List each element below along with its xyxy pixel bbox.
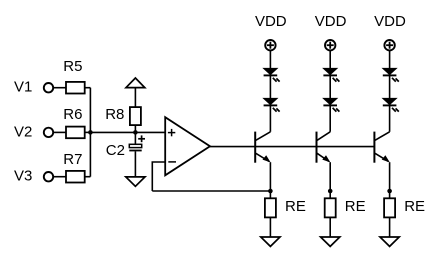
wire V2 to R6 [54, 131, 66, 133]
ground column 3 [380, 237, 399, 246]
LED D2b emission arrows [333, 108, 340, 112]
svg-text:RE: RE [285, 198, 306, 215]
supply VDD terminal column 1 [265, 40, 275, 50]
wire R6 to bus [85, 131, 91, 133]
wire feedback to first emitter [152, 190, 270, 192]
supply arrow above R8 [126, 78, 145, 88]
LED D2a emission arrows [333, 78, 340, 82]
LED D1a emission arrows [273, 78, 280, 82]
transistor Q3 [374, 132, 389, 163]
wire LED D2b to Q2 collector [329, 105, 331, 131]
wire V3 to R7 [54, 176, 66, 178]
wire LED D1a to D1b [269, 75, 271, 98]
op-amp U1 [165, 117, 210, 175]
resistor R7 [66, 171, 85, 183]
resistor R5 [66, 82, 85, 94]
capacitor C2 [129, 144, 141, 151]
wire LED D3a to D3b [389, 75, 391, 98]
resistor RE column 3 [384, 198, 395, 217]
terminal V3 [44, 172, 53, 181]
wire R5 to bus [85, 87, 91, 89]
LED D1a [264, 68, 278, 75]
node Q3 emitter junction [387, 189, 392, 194]
terminal V2 [44, 128, 53, 137]
node Q1 emitter junction [268, 189, 273, 194]
svg-text:VDD: VDD [315, 13, 347, 30]
svg-text:RE: RE [345, 198, 366, 215]
transistor Q1 [255, 132, 270, 163]
svg-text:R7: R7 [63, 151, 82, 168]
wire RE to ground column 1 [269, 217, 271, 237]
ground column 2 [321, 237, 340, 246]
wire Q3 emitter to node [389, 162, 391, 191]
supply VDD terminal column 2 [325, 40, 335, 50]
op-amp U1 minus input marking [168, 161, 176, 163]
ground column 1 [261, 237, 280, 246]
svg-text:VDD: VDD [374, 13, 406, 30]
wire V1 to R5 [54, 87, 66, 89]
svg-text:C2: C2 [106, 142, 125, 159]
svg-text:V3: V3 [14, 168, 32, 185]
transistor Q2 [317, 132, 331, 163]
svg-text:VDD: VDD [255, 13, 287, 30]
wire RE to ground column 3 [389, 217, 391, 237]
wire VDD to LED D3a [389, 50, 391, 68]
svg-text:V1: V1 [14, 79, 32, 96]
wire op-amp output rail [210, 146, 374, 148]
wire node to C2 [134, 132, 136, 144]
wire arrow to R8 [134, 88, 136, 108]
wire C2 to ground [134, 151, 136, 177]
wire input bus vertical [89, 88, 91, 177]
svg-text:R8: R8 [105, 106, 124, 123]
LED D2a [323, 68, 337, 75]
capacitor C2 plus sign [138, 135, 145, 142]
resistor R6 [66, 127, 85, 139]
wire VDD to LED D2a [329, 50, 331, 68]
svg-text:R6: R6 [63, 106, 82, 123]
resistor RE column 1 [265, 198, 276, 217]
node R8/C2 junction [133, 130, 138, 135]
wire op-amp - input stub [152, 162, 165, 191]
svg-text:R5: R5 [63, 58, 82, 75]
resistor R8 [130, 107, 141, 125]
LED D3a emission arrows [392, 78, 399, 82]
resistor RE column 2 [325, 198, 336, 217]
svg-text:V2: V2 [14, 123, 32, 140]
wire R7 to bus [85, 176, 91, 178]
LED D3a [383, 68, 397, 75]
wire bus to op-amp + input [90, 131, 165, 133]
supply VDD terminal column 3 [384, 40, 394, 50]
wire Q2 emitter to node [329, 162, 331, 191]
node input bus junction [88, 130, 93, 135]
wire node to RE column 1 [269, 191, 271, 198]
wire LED D1b to Q1 collector [269, 105, 271, 131]
LED D3b emission arrows [392, 108, 399, 112]
wire LED D2a to D2b [329, 75, 331, 98]
wire node to RE column 3 [389, 191, 391, 198]
LED D3b [383, 98, 397, 105]
terminal V1 [44, 83, 53, 92]
wire LED D3b to Q3 collector [389, 105, 391, 131]
wire VDD to LED D1a [269, 50, 271, 68]
wire node to RE column 2 [329, 191, 331, 198]
LED D1b [264, 98, 278, 105]
node Q2 emitter junction [328, 189, 333, 194]
svg-text:RE: RE [404, 198, 425, 215]
wire Q1 emitter to node [269, 162, 271, 191]
wire R8 to node [134, 125, 136, 132]
ground below C2 [126, 177, 145, 186]
LED D2b [323, 98, 337, 105]
LED D1b emission arrows [273, 108, 280, 112]
op-amp U1 plus input marking [168, 129, 175, 136]
wire RE to ground column 2 [329, 217, 331, 237]
